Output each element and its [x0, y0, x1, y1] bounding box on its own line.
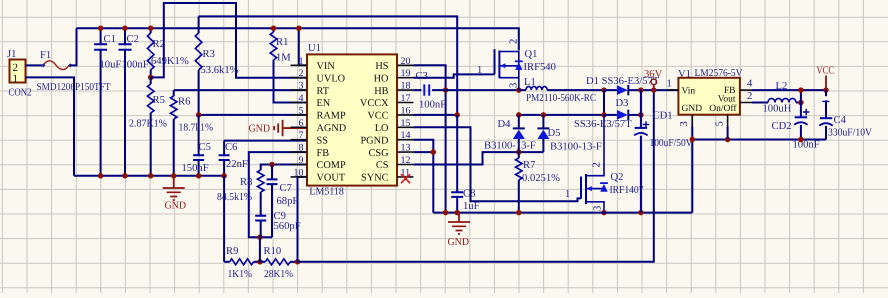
svg-text:PGND: PGND	[360, 135, 389, 146]
wire V1 pin5 stub	[727, 127, 729, 140]
svg-text:Q1: Q1	[525, 49, 538, 60]
wire comp to divider	[259, 237, 261, 262]
svg-text:5: 5	[714, 121, 725, 126]
junction rail HS col	[443, 210, 449, 216]
svg-text:J1: J1	[7, 49, 16, 60]
svg-text:CSG: CSG	[368, 148, 389, 159]
resistor R2	[147, 28, 188, 77]
svg-text:1: 1	[565, 189, 570, 200]
svg-text:IRF1407: IRF1407	[610, 185, 644, 196]
junction C5 bottom	[196, 173, 202, 179]
svg-text:CON2: CON2	[9, 88, 32, 99]
label LM5118	[309, 187, 344, 198]
ground middle	[448, 213, 471, 248]
svg-text:COMP: COMP	[317, 160, 346, 171]
svg-text:0.0251%: 0.0251%	[522, 173, 560, 184]
svg-text:Q2: Q2	[611, 172, 624, 183]
wire ground to R9	[223, 176, 225, 262]
capacitor C2	[119, 28, 149, 176]
svg-text:C4: C4	[834, 115, 847, 126]
transistor Q2	[581, 115, 644, 213]
svg-text:VCCX: VCCX	[360, 98, 389, 109]
resistor R7	[516, 152, 561, 213]
svg-text:L1: L1	[524, 77, 536, 88]
capacitor C4	[819, 90, 872, 139]
svg-text:4: 4	[747, 79, 753, 90]
svg-text:2: 2	[509, 39, 520, 44]
wire HO to Q1 gate	[413, 74, 494, 77]
wire VOUT sense	[298, 177, 308, 262]
svg-text:1: 1	[299, 56, 304, 67]
svg-text:R5: R5	[153, 95, 165, 106]
wire F1 to VIN rail	[70, 28, 77, 65]
capacitor C1	[94, 28, 121, 176]
wire VIN pin net	[299, 28, 307, 65]
IC U1 LM5118	[291, 54, 414, 185]
wire SW node	[446, 89, 519, 91]
svg-text:B3100-13-F: B3100-13-F	[484, 141, 536, 152]
wire V1 FB net	[752, 89, 826, 91]
junction L2 out	[798, 100, 804, 106]
inductor L2	[752, 81, 801, 115]
svg-text:68pF: 68pF	[277, 196, 299, 207]
junction R5 bottom	[148, 173, 154, 179]
svg-text:1: 1	[477, 65, 482, 76]
capacitor CD2	[772, 103, 820, 151]
svg-text:B3100-13-F: B3100-13-F	[550, 142, 602, 153]
svg-text:18: 18	[401, 81, 411, 92]
junction VIN column	[296, 25, 302, 31]
svg-text:2: 2	[747, 91, 752, 102]
capacitor C5	[182, 115, 211, 176]
svg-text:13: 13	[401, 143, 411, 154]
junction V1 pin3	[690, 137, 696, 143]
svg-text:R10: R10	[264, 246, 282, 257]
wire J1 pin1 to ground	[26, 77, 75, 175]
svg-text:150nF: 150nF	[182, 163, 209, 174]
svg-text:1: 1	[667, 79, 672, 90]
svg-text:3: 3	[679, 121, 690, 126]
svg-text:CS: CS	[376, 160, 389, 171]
svg-text:F1: F1	[40, 50, 51, 61]
junction CS sense node	[516, 149, 522, 155]
svg-text:R8: R8	[240, 177, 252, 188]
resistor R5	[129, 77, 167, 175]
svg-text:CD1: CD1	[653, 111, 673, 122]
wire lower net	[519, 114, 604, 116]
svg-text:17: 17	[401, 93, 411, 104]
wire VIN rail	[77, 28, 519, 50]
svg-text:28K1%: 28K1%	[264, 269, 293, 280]
wire SS net	[224, 140, 307, 142]
wire left ground rail	[74, 175, 224, 177]
svg-text:100uH: 100uH	[763, 104, 792, 115]
connector J1	[7, 49, 32, 99]
svg-text:16: 16	[401, 105, 411, 116]
svg-text:GND: GND	[448, 237, 470, 248]
svg-text:1M: 1M	[276, 53, 291, 64]
wire PGND net	[413, 140, 433, 213]
svg-text:20: 20	[401, 56, 411, 67]
junction C6 bottom	[221, 173, 227, 179]
junction D1 CD1 node	[638, 87, 644, 93]
junction R6 bottom	[171, 173, 177, 179]
junction C1 top	[98, 25, 104, 31]
svg-text:L2: L2	[776, 81, 788, 92]
svg-text:D4: D4	[498, 119, 512, 130]
svg-text:10uF: 10uF	[100, 60, 122, 71]
svg-text:84.5k1%: 84.5k1%	[217, 192, 252, 203]
svg-text:1: 1	[13, 73, 19, 85]
svg-text:C6: C6	[225, 142, 237, 153]
no-connect SYNC	[401, 174, 410, 183]
svg-text:R9: R9	[226, 246, 238, 257]
wire HS net	[413, 65, 445, 212]
svg-text:SS36-E3/57T: SS36-E3/57T	[574, 119, 632, 130]
label V1	[678, 69, 691, 80]
junction lower left	[516, 112, 522, 118]
wire Vout to FB	[800, 90, 802, 102]
wire V1 bottom net	[692, 139, 826, 141]
svg-text:FB: FB	[317, 148, 330, 159]
junction 36V node	[651, 87, 657, 93]
svg-text:3: 3	[593, 206, 604, 211]
svg-text:C7: C7	[280, 183, 292, 194]
label Q1 source pin 3	[509, 83, 520, 88]
capacitor C9	[255, 211, 300, 237]
svg-text:On/Off: On/Off	[709, 104, 737, 114]
svg-text:D5: D5	[548, 128, 561, 139]
junction V1 pin5	[725, 137, 731, 143]
fuse F1	[37, 50, 111, 93]
svg-text:4: 4	[299, 93, 304, 104]
junction rail R7 col	[516, 210, 522, 216]
label Q2 gate pin 1	[565, 189, 570, 200]
svg-text:CD2: CD2	[772, 121, 792, 132]
svg-text:GND: GND	[165, 201, 187, 212]
resistor R8	[217, 170, 264, 216]
wire FB net	[249, 152, 307, 237]
svg-text:3: 3	[299, 81, 304, 92]
wire CSG net	[413, 151, 433, 153]
junction SW Q1 source	[516, 87, 522, 93]
junction L1 out	[601, 87, 607, 93]
svg-text:R6: R6	[178, 97, 190, 108]
power port 36V	[644, 69, 663, 90]
svg-text:GND: GND	[682, 104, 703, 114]
wire COMP net	[261, 165, 307, 171]
capacitor C8	[451, 115, 479, 213]
svg-text:3: 3	[509, 83, 520, 88]
svg-text:Vin: Vin	[682, 87, 696, 97]
regulator V1 LM2576-5V	[666, 78, 753, 127]
resistor R3	[195, 16, 238, 115]
svg-text:1K1%: 1K1%	[228, 269, 253, 280]
svg-text:R7: R7	[523, 160, 535, 171]
svg-text:C8: C8	[463, 189, 475, 200]
svg-text:7: 7	[299, 130, 304, 141]
svg-text:C5: C5	[199, 142, 211, 153]
svg-text:LM2576-5V: LM2576-5V	[695, 68, 743, 79]
svg-text:AGND: AGND	[317, 123, 347, 134]
junction CD2 bottom	[798, 137, 804, 143]
label LM2576-5V	[695, 68, 743, 79]
ground left	[163, 176, 187, 212]
junction R10 right node	[295, 259, 301, 265]
diode D5	[537, 115, 602, 153]
svg-text:10: 10	[294, 167, 304, 178]
junction C2 top	[122, 25, 128, 31]
svg-text:SS: SS	[317, 135, 329, 146]
junction rail C8 col	[454, 210, 460, 216]
resistor R6	[170, 90, 213, 176]
capacitor CD1	[634, 90, 693, 213]
junction D5 tap	[541, 112, 547, 118]
svg-text:V1: V1	[678, 69, 691, 80]
wire middle ground rail	[433, 212, 692, 214]
junction rail CD1 col	[638, 210, 644, 216]
svg-text:C1: C1	[104, 34, 116, 45]
svg-text:9: 9	[299, 155, 304, 166]
resistor R9	[224, 246, 260, 280]
junction VCC / C8 node	[454, 112, 460, 118]
junction VCC node	[823, 87, 829, 93]
svg-text:RT: RT	[317, 86, 330, 97]
transistor Q1	[495, 49, 556, 90]
svg-text:12: 12	[401, 155, 411, 166]
ground AGND	[249, 120, 308, 136]
svg-text:RAMP: RAMP	[317, 111, 346, 122]
svg-text:HO: HO	[374, 73, 389, 84]
svg-text:330uF/10V: 330uF/10V	[828, 128, 872, 139]
label Q1 drain pin 2	[509, 39, 520, 44]
svg-text:560pF: 560pF	[274, 221, 301, 232]
junction HS/C3/SW node	[443, 87, 449, 93]
svg-text:19: 19	[401, 68, 411, 79]
svg-text:2: 2	[299, 68, 304, 79]
wire RAMP net	[199, 114, 307, 116]
svg-text:LM5118: LM5118	[309, 187, 344, 198]
svg-text:2: 2	[592, 162, 603, 167]
svg-text:VIN: VIN	[317, 61, 336, 72]
svg-text:1uF: 1uF	[463, 201, 480, 212]
wire UVLO net	[151, 3, 307, 78]
svg-text:VOUT: VOUT	[317, 173, 346, 184]
svg-text:100nF: 100nF	[122, 60, 149, 71]
wire LO to Q2 gate	[413, 127, 581, 201]
wire L1 out column	[603, 90, 605, 115]
svg-text:14: 14	[401, 130, 411, 141]
wire V1 GND pin	[691, 127, 693, 213]
label Q1 gate pin 1	[477, 65, 482, 76]
junction comp bottom node	[257, 234, 263, 240]
junction R2/R5 node	[148, 75, 154, 81]
svg-text:15: 15	[401, 118, 411, 129]
svg-text:UVLO: UVLO	[317, 73, 346, 84]
junction Q2 source	[601, 210, 607, 216]
resistor R10	[260, 246, 298, 280]
junction C1 bottom	[98, 173, 104, 179]
power port VCC	[817, 66, 835, 91]
svg-text:VCC: VCC	[817, 66, 835, 77]
junction COMP C7 tap	[269, 162, 275, 168]
svg-text:IRF540: IRF540	[524, 62, 556, 73]
wire CS net	[413, 152, 543, 164]
svg-text:649K1%: 649K1%	[151, 56, 189, 67]
svg-text:53.6k1%: 53.6k1%	[201, 65, 239, 76]
inductor L1	[519, 77, 604, 104]
capacitor C6	[219, 141, 248, 176]
svg-text:6: 6	[299, 118, 304, 129]
junction D3 out	[638, 112, 644, 118]
svg-text:EN: EN	[317, 98, 331, 109]
diode D1	[586, 76, 678, 95]
wire VCC net	[413, 114, 457, 116]
junction R2 top	[148, 25, 154, 31]
svg-text:18.7k1%: 18.7k1%	[179, 123, 214, 134]
wire R3 to VCC	[199, 16, 458, 115]
svg-text:8: 8	[299, 143, 304, 154]
svg-text:2.87K1%: 2.87K1%	[129, 119, 167, 130]
svg-text:VCC: VCC	[367, 111, 388, 122]
junction R9/R10 node	[257, 259, 263, 265]
svg-text:HB: HB	[374, 86, 388, 97]
diode D3	[574, 98, 641, 130]
svg-text:R3: R3	[203, 49, 215, 60]
label U1	[308, 43, 321, 54]
junction FB tap	[798, 87, 804, 93]
junction RAMP node	[196, 112, 202, 118]
svg-text:C3: C3	[416, 71, 428, 82]
svg-text:LO: LO	[375, 123, 389, 134]
junction C2 bottom	[122, 173, 128, 179]
svg-text:R1: R1	[276, 37, 288, 48]
capacitor C3	[413, 71, 446, 111]
svg-text:36V: 36V	[644, 69, 663, 80]
resistor R1	[270, 28, 307, 102]
junction lower right	[601, 112, 607, 118]
svg-text:D3: D3	[616, 98, 629, 109]
svg-text:C2: C2	[127, 34, 139, 45]
svg-text:100uF/50V: 100uF/50V	[650, 138, 693, 149]
label Q2 source pin 3	[593, 206, 604, 211]
svg-text:100nF: 100nF	[793, 140, 820, 151]
wire J1 pin2 to F1	[26, 64, 43, 66]
capacitor C7	[267, 165, 299, 238]
svg-text:100nF: 100nF	[419, 100, 446, 111]
svg-text:GND: GND	[249, 124, 271, 135]
svg-text:PM2110-560K-RC: PM2110-560K-RC	[526, 93, 596, 104]
wire feedback to 36V	[298, 90, 654, 262]
svg-text:U1: U1	[308, 43, 321, 54]
svg-text:5: 5	[299, 105, 304, 116]
svg-text:HS: HS	[375, 61, 388, 72]
junction CSG node	[431, 149, 437, 155]
junction R1 top	[271, 25, 277, 31]
wire RT net	[174, 89, 307, 91]
svg-text:22nF: 22nF	[226, 159, 248, 170]
label Q2 drain pin 2	[592, 162, 603, 167]
diode D4	[484, 115, 536, 152]
svg-text:SYNC: SYNC	[361, 173, 389, 184]
